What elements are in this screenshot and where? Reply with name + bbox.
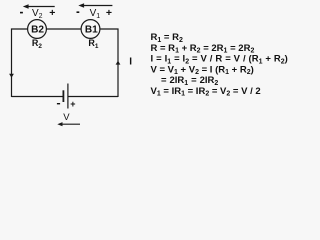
wire top-left segment <box>12 29 28 97</box>
svg-text:+: + <box>70 99 75 109</box>
svg-text:R2: R2 <box>32 38 43 50</box>
svg-text:V2: V2 <box>32 8 43 20</box>
equations text block <box>151 32 288 98</box>
svg-text:+: + <box>106 7 112 19</box>
battery polarity label - <box>57 103 60 104</box>
wire top-right segment <box>100 29 118 97</box>
svg-text:V1 = IR1 = IR2 = V2 = V / 2: V1 = IR1 = IR2 = V2 = V / 2 <box>151 86 261 98</box>
svg-text:V: V <box>63 112 70 123</box>
battery polarity label + <box>70 99 75 109</box>
svg-text:I: I <box>129 57 132 68</box>
current arrow (left branch, downward) <box>9 74 14 78</box>
svg-text:V1: V1 <box>90 8 101 20</box>
svg-text:+: + <box>49 7 55 19</box>
voltage annotation V (source) <box>57 112 80 126</box>
svg-text:B2: B2 <box>31 24 44 35</box>
label I <box>129 57 132 68</box>
lamp B2 <box>28 20 47 39</box>
value label R2 <box>32 38 43 50</box>
svg-text:R1: R1 <box>88 38 99 50</box>
wire top-middle segment <box>46 28 81 30</box>
voltage annotation V2 <box>20 4 55 20</box>
svg-text:B1: B1 <box>85 24 98 35</box>
wire bottom-left segment <box>12 96 63 98</box>
current arrow I (right branch, upward) <box>116 61 121 65</box>
voltage annotation V1 <box>77 3 113 20</box>
lamp B1 <box>81 20 100 39</box>
wire bottom-right segment <box>68 96 118 98</box>
value label R1 <box>88 38 99 50</box>
battery V <box>63 84 68 109</box>
